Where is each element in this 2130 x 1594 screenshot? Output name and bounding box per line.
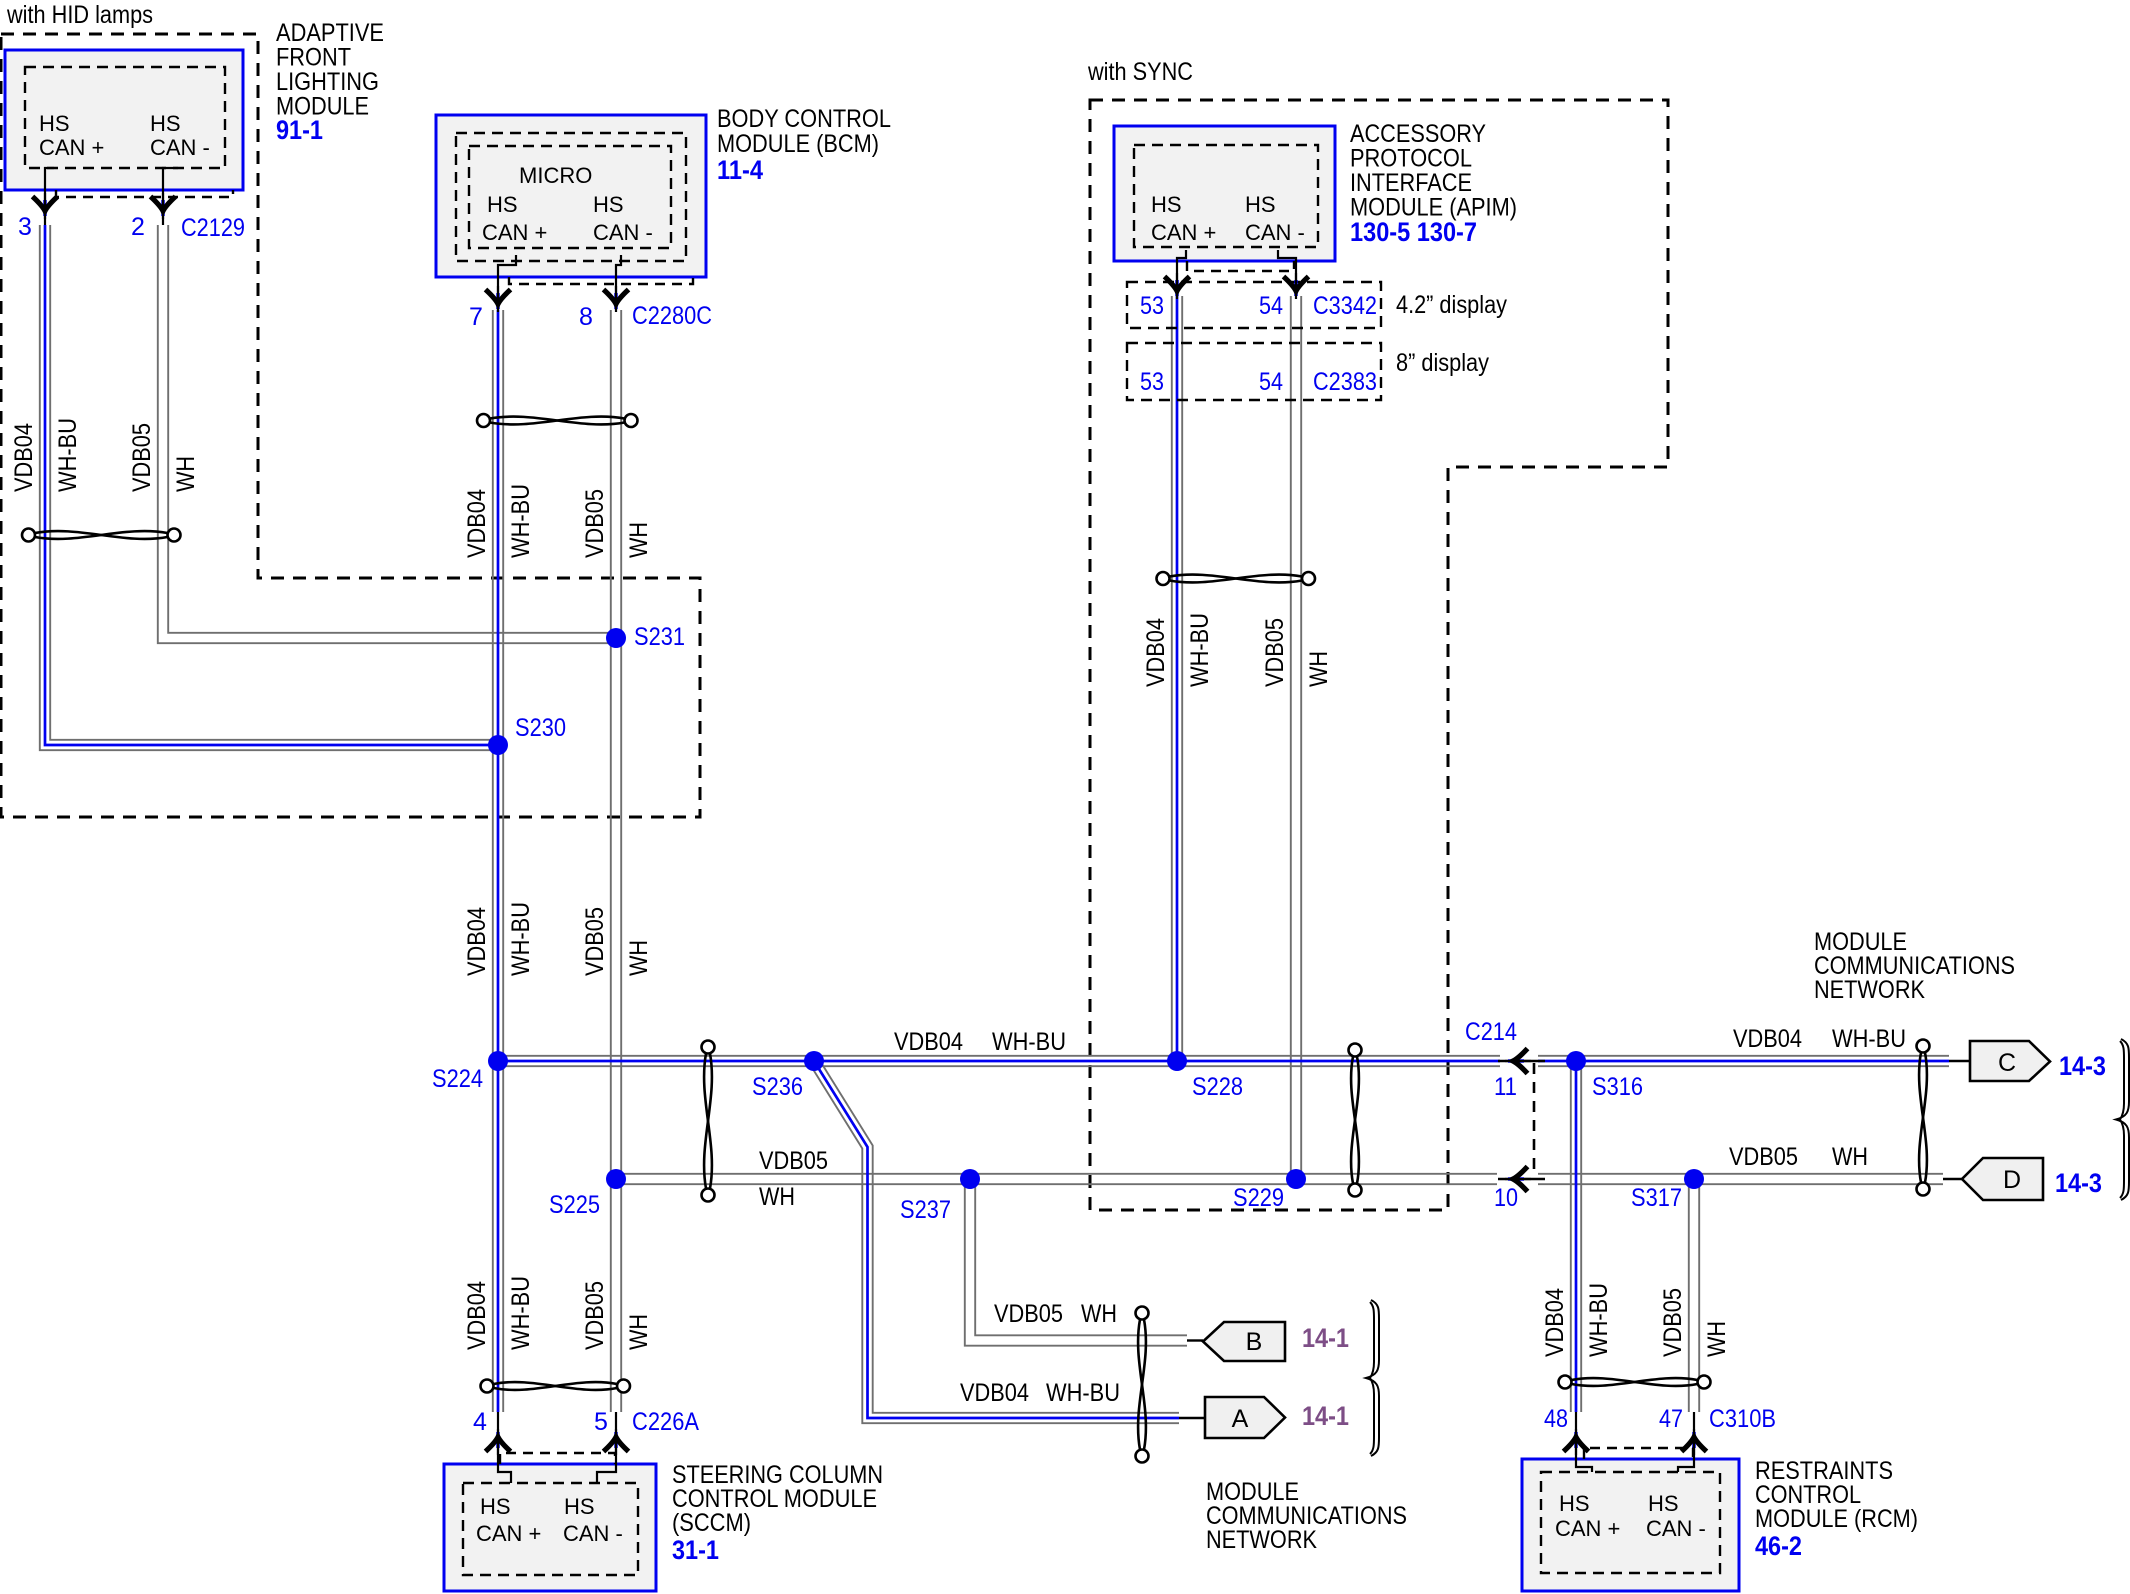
svg-text:WH-BU: WH-BU: [1186, 613, 1214, 687]
svg-text:53: 53: [1140, 292, 1164, 320]
svg-text:HS: HS: [1559, 1491, 1590, 1516]
svg-text:A: A: [1232, 1405, 1249, 1433]
svg-text:54: 54: [1259, 292, 1283, 320]
svg-text:C2129: C2129: [181, 214, 245, 242]
svg-text:S231: S231: [634, 623, 685, 651]
svg-text:WH: WH: [759, 1183, 795, 1211]
svg-text:14-1: 14-1: [1302, 1401, 1349, 1431]
svg-text:91-1: 91-1: [276, 115, 323, 145]
svg-text:VDB05: VDB05: [128, 423, 156, 492]
svg-text:S236: S236: [752, 1073, 803, 1101]
svg-text:VDB05: VDB05: [581, 907, 609, 976]
svg-text:WH: WH: [1832, 1143, 1868, 1171]
svg-text:14-3: 14-3: [2059, 1051, 2106, 1081]
svg-text:VDB04: VDB04: [463, 1281, 491, 1350]
svg-text:CAN -: CAN -: [1245, 220, 1305, 245]
svg-text:HS: HS: [593, 192, 624, 217]
svg-text:VDB05: VDB05: [1729, 1143, 1798, 1171]
svg-text:C2383: C2383: [1313, 368, 1377, 396]
svg-text:5: 5: [594, 1408, 608, 1436]
svg-text:31-1: 31-1: [672, 1535, 719, 1565]
svg-text:WH-BU: WH-BU: [507, 1276, 535, 1350]
svg-text:HS: HS: [1151, 192, 1182, 217]
svg-text:11-4: 11-4: [717, 155, 763, 185]
svg-text:WH-BU: WH-BU: [992, 1028, 1066, 1056]
svg-text:53: 53: [1140, 368, 1164, 396]
svg-text:C226A: C226A: [632, 1408, 699, 1436]
svg-text:CAN +: CAN +: [1555, 1516, 1620, 1541]
svg-text:14-1: 14-1: [1302, 1323, 1349, 1353]
svg-text:NETWORK: NETWORK: [1814, 976, 1925, 1004]
svg-text:HS: HS: [39, 111, 70, 136]
svg-text:47: 47: [1659, 1405, 1683, 1433]
svg-text:S237: S237: [900, 1196, 951, 1224]
svg-text:WH-BU: WH-BU: [1832, 1025, 1906, 1053]
svg-text:48: 48: [1544, 1405, 1568, 1433]
svg-text:HS: HS: [487, 192, 518, 217]
svg-text:130-5 130-7: 130-5 130-7: [1350, 217, 1477, 247]
svg-text:VDB04: VDB04: [463, 907, 491, 976]
svg-text:VDB05: VDB05: [1261, 618, 1289, 687]
svg-text:HS: HS: [1245, 192, 1276, 217]
svg-text:VDB04: VDB04: [10, 423, 38, 492]
svg-text:46-2: 46-2: [1755, 1531, 1802, 1561]
svg-text:MODULE (BCM): MODULE (BCM): [717, 130, 879, 158]
svg-text:VDB04: VDB04: [1541, 1288, 1569, 1357]
svg-text:8” display: 8” display: [1396, 349, 1489, 377]
svg-text:CAN -: CAN -: [593, 220, 653, 245]
svg-text:4.2” display: 4.2” display: [1396, 291, 1507, 319]
svg-text:WH-BU: WH-BU: [54, 418, 82, 492]
svg-text:WH-BU: WH-BU: [1046, 1379, 1120, 1407]
svg-text:S228: S228: [1192, 1073, 1243, 1101]
svg-text:4: 4: [473, 1408, 487, 1436]
svg-text:2: 2: [131, 213, 145, 241]
svg-text:WH: WH: [172, 456, 200, 492]
svg-text:7: 7: [469, 303, 483, 331]
svg-text:C: C: [1998, 1049, 2016, 1077]
svg-text:S229: S229: [1233, 1184, 1284, 1212]
svg-text:CAN +: CAN +: [482, 220, 547, 245]
svg-text:HS: HS: [480, 1494, 511, 1519]
svg-text:CAN +: CAN +: [476, 1521, 541, 1546]
svg-text:VDB05: VDB05: [1659, 1288, 1687, 1357]
svg-text:D: D: [2003, 1166, 2021, 1194]
svg-text:CAN -: CAN -: [563, 1521, 623, 1546]
svg-text:S317: S317: [1631, 1184, 1682, 1212]
svg-text:CAN +: CAN +: [39, 135, 104, 160]
svg-text:11: 11: [1494, 1073, 1517, 1101]
svg-text:10: 10: [1494, 1184, 1518, 1212]
svg-text:VDB05: VDB05: [759, 1147, 828, 1175]
svg-text:CAN -: CAN -: [150, 135, 210, 160]
svg-text:HS: HS: [150, 111, 181, 136]
svg-text:VDB04: VDB04: [894, 1028, 963, 1056]
svg-text:C214: C214: [1465, 1018, 1517, 1046]
svg-text:CAN -: CAN -: [1646, 1516, 1706, 1541]
svg-text:VDB05: VDB05: [581, 489, 609, 558]
svg-text:3: 3: [18, 213, 32, 241]
svg-text:VDB05: VDB05: [581, 1281, 609, 1350]
svg-text:VDB04: VDB04: [960, 1379, 1029, 1407]
svg-text:S230: S230: [515, 714, 566, 742]
svg-text:HS: HS: [1648, 1491, 1679, 1516]
svg-text:B: B: [1246, 1328, 1263, 1356]
svg-text:with HID lamps: with HID lamps: [6, 1, 153, 29]
svg-text:8: 8: [579, 303, 593, 331]
svg-text:CAN +: CAN +: [1151, 220, 1216, 245]
svg-text:VDB04: VDB04: [463, 489, 491, 558]
svg-text:WH: WH: [625, 940, 653, 976]
svg-text:WH: WH: [1305, 651, 1333, 687]
svg-text:MODULE (RCM): MODULE (RCM): [1755, 1505, 1918, 1533]
svg-text:C310B: C310B: [1709, 1405, 1776, 1433]
svg-text:VDB04: VDB04: [1733, 1025, 1802, 1053]
svg-text:MICRO: MICRO: [519, 163, 592, 188]
svg-text:HS: HS: [564, 1494, 595, 1519]
svg-text:WH: WH: [625, 1314, 653, 1350]
svg-text:(SCCM): (SCCM): [672, 1509, 751, 1537]
svg-text:NETWORK: NETWORK: [1206, 1526, 1317, 1554]
svg-text:WH: WH: [1703, 1321, 1731, 1357]
svg-text:S224: S224: [432, 1065, 483, 1093]
svg-text:C2280C: C2280C: [632, 302, 712, 330]
svg-text:WH-BU: WH-BU: [507, 484, 535, 558]
svg-text:WH-BU: WH-BU: [507, 902, 535, 976]
svg-text:C3342: C3342: [1313, 292, 1377, 320]
svg-text:WH: WH: [625, 522, 653, 558]
svg-text:WH: WH: [1081, 1300, 1117, 1328]
svg-text:54: 54: [1259, 368, 1283, 396]
svg-text:VDB04: VDB04: [1142, 618, 1170, 687]
svg-text:with SYNC: with SYNC: [1087, 58, 1193, 86]
svg-text:WH-BU: WH-BU: [1585, 1283, 1613, 1357]
svg-text:S316: S316: [1592, 1073, 1643, 1101]
svg-text:BODY CONTROL: BODY CONTROL: [717, 105, 891, 133]
svg-text:S225: S225: [549, 1191, 600, 1219]
svg-text:VDB05: VDB05: [994, 1300, 1063, 1328]
svg-text:14-3: 14-3: [2055, 1168, 2102, 1198]
